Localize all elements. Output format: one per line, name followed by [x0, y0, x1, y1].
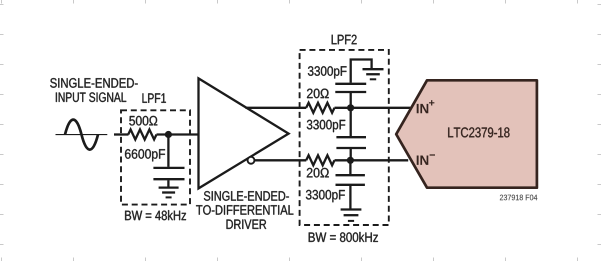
- figure number 237918 F04: [500, 195, 537, 201]
- label 3300pF bottom: [306, 190, 345, 202]
- ground GND2 top-right: [363, 69, 384, 79]
- label driver line1 SINGLE-ENDED-: [204, 191, 289, 201]
- capacitor C2 3300pF top: [335, 60, 371, 108]
- LPF2 dashed box: [300, 50, 389, 225]
- capacitor C4 3300pF bottom: [336, 160, 365, 208]
- inversion bubble on U1 bottom output: [248, 157, 255, 164]
- node C junction dot on IN- line: [347, 157, 354, 164]
- label BW = 800kHz: [309, 232, 378, 242]
- label 3300pF top: [308, 66, 347, 78]
- label driver line3 DRIVER: [227, 220, 267, 229]
- node A junction dot: [165, 131, 172, 138]
- label LTC2379-18: [448, 127, 509, 137]
- resistor R3 20 ohm bottom: [306, 155, 334, 165]
- node B junction dot on IN+ line: [347, 104, 354, 111]
- wire R2 to chip pin IN+: [335, 107, 411, 109]
- label 20 ohm bottom: [307, 168, 329, 178]
- ground GND3 bottom: [341, 210, 362, 221]
- ground GND1: [159, 188, 179, 198]
- capacitor C3 3300pF middle: [336, 108, 366, 161]
- wire R3 to chip pin IN-: [335, 159, 409, 161]
- label LPF2: [332, 35, 357, 45]
- label 6600pF: [125, 149, 165, 161]
- LPF1 dashed box: [121, 110, 190, 204]
- AC source VIN sine symbol: [56, 120, 108, 150]
- label driver line2 TO-DIFFERENTIAL: [196, 205, 293, 215]
- resistor R1 500 ohm: [128, 130, 156, 140]
- label INPUT SIGNAL: [56, 92, 126, 102]
- label 3300pF middle: [307, 120, 345, 132]
- wire R1 to driver U1: [157, 133, 199, 135]
- wire U1 top output to R2: [246, 107, 307, 109]
- label SINGLE-ENDED-: [50, 78, 138, 88]
- pin label IN-: [417, 154, 435, 165]
- op-amp U1 single-ended-to-differential driver: [199, 78, 289, 188]
- label LPF1: [143, 93, 166, 102]
- label BW = 48kHz: [125, 210, 186, 220]
- wire U1 bottom output to R3: [255, 159, 307, 161]
- label 20 ohm top: [307, 89, 329, 99]
- pin label IN+: [417, 100, 435, 113]
- ADC U2 LTC2379-18 body: [396, 80, 537, 187]
- resistor R2 20 ohm top: [306, 103, 334, 113]
- wire node A down to C1: [167, 135, 169, 167]
- wire input to LPF1: [114, 133, 129, 135]
- label 500 ohm: [129, 116, 157, 126]
- capacitor C1 6600pF: [153, 168, 184, 187]
